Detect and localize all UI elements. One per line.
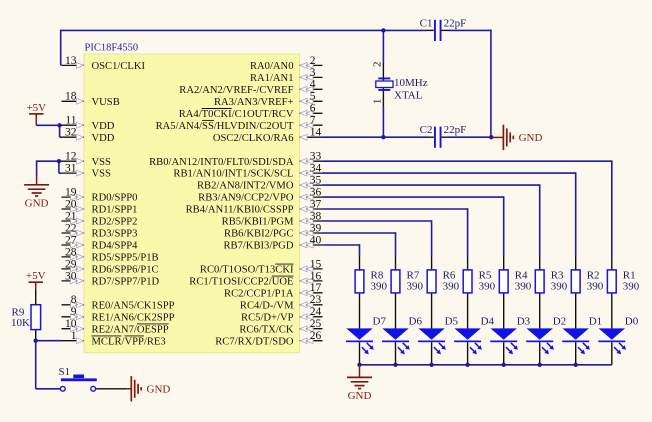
svg-text:D1: D1 (589, 315, 602, 327)
svg-text:GND: GND (147, 384, 171, 396)
svg-text:GND: GND (348, 390, 372, 402)
svg-text:40: 40 (310, 234, 322, 246)
svg-text:6: 6 (310, 103, 316, 115)
svg-text:16: 16 (310, 270, 322, 282)
svg-text:RA0/AN0: RA0/AN0 (250, 61, 294, 72)
svg-text:390: 390 (587, 281, 604, 293)
svg-text:RD1/SPP1: RD1/SPP1 (92, 205, 138, 216)
svg-text:RE2/AN7/OESPP: RE2/AN7/OESPP (92, 324, 169, 335)
svg-text:MCLR/VPP/RE3: MCLR/VPP/RE3 (92, 336, 166, 347)
svg-text:RD2/SPP2: RD2/SPP2 (92, 217, 138, 228)
svg-text:390: 390 (479, 281, 496, 293)
svg-text:D3: D3 (517, 315, 531, 327)
svg-text:9: 9 (71, 306, 77, 318)
svg-text:10: 10 (65, 318, 77, 330)
svg-text:RD6/SPP6/P1C: RD6/SPP6/P1C (92, 265, 159, 276)
svg-text:2: 2 (371, 61, 383, 67)
svg-text:RC7/RX/DT/SDO: RC7/RX/DT/SDO (215, 336, 294, 347)
svg-text:3: 3 (310, 67, 316, 79)
svg-text:RD4/SPP4: RD4/SPP4 (92, 241, 139, 252)
svg-text:VSS: VSS (92, 169, 112, 180)
svg-text:30: 30 (65, 270, 77, 282)
svg-text:10K: 10K (11, 317, 30, 329)
svg-text:RC1/T1OSI/CCP2/UOE: RC1/T1OSI/CCP2/UOE (189, 277, 293, 288)
svg-text:23: 23 (310, 294, 322, 306)
svg-text:+5V: +5V (26, 102, 46, 114)
svg-text:RB5/KBI1/PGM: RB5/KBI1/PGM (222, 217, 294, 228)
svg-text:2: 2 (310, 55, 316, 67)
svg-text:RE1/AN6/CK2SPP: RE1/AN6/CK2SPP (92, 312, 175, 323)
svg-text:RE0/AN5/CK1SPP: RE0/AN5/CK1SPP (92, 300, 175, 311)
svg-text:22pF: 22pF (444, 17, 467, 29)
svg-text:35: 35 (310, 175, 322, 187)
svg-text:1: 1 (371, 99, 383, 105)
svg-text:18: 18 (65, 91, 77, 103)
svg-text:4: 4 (310, 79, 316, 91)
svg-text:C2: C2 (420, 124, 433, 136)
svg-text:28: 28 (65, 246, 77, 258)
svg-text:RC4/D-/VM: RC4/D-/VM (240, 300, 294, 311)
svg-text:39: 39 (310, 222, 322, 234)
svg-text:RB0/AN12/INT0/FLT0/SDI/SDA: RB0/AN12/INT0/FLT0/SDI/SDA (149, 157, 294, 168)
svg-text:GND: GND (519, 132, 543, 144)
svg-text:38: 38 (310, 210, 322, 222)
svg-text:D4: D4 (481, 315, 495, 327)
svg-text:VDD: VDD (92, 133, 115, 144)
svg-text:VUSB: VUSB (92, 97, 120, 108)
svg-text:RC0/T1OSO/T13CKI: RC0/T1OSO/T13CKI (200, 265, 294, 276)
svg-text:12: 12 (65, 151, 77, 163)
svg-text:390: 390 (551, 281, 568, 293)
svg-text:31: 31 (65, 163, 77, 175)
svg-text:D7: D7 (373, 315, 387, 327)
svg-text:15: 15 (310, 258, 322, 270)
svg-text:37: 37 (310, 198, 322, 210)
svg-text:26: 26 (310, 330, 322, 342)
svg-text:RD0/SPP0: RD0/SPP0 (92, 193, 138, 204)
svg-text:RA5/AN4/SS/HLVDIN/C2OUT: RA5/AN4/SS/HLVDIN/C2OUT (156, 121, 294, 132)
svg-text:VDD: VDD (92, 121, 115, 132)
svg-text:8: 8 (71, 294, 77, 306)
svg-text:RD7/SPP7/P1D: RD7/SPP7/P1D (92, 277, 160, 288)
svg-text:RA2/AN2/VREF-/CVREF: RA2/AN2/VREF-/CVREF (179, 85, 293, 96)
svg-text:24: 24 (310, 306, 322, 318)
svg-text:D5: D5 (445, 315, 459, 327)
svg-text:19: 19 (65, 187, 77, 199)
svg-text:RB7/KBI3/PGD: RB7/KBI3/PGD (223, 241, 293, 252)
svg-text:RC2/CCP1/P1A: RC2/CCP1/P1A (224, 288, 294, 299)
svg-text:RD5/SPP5/P1B: RD5/SPP5/P1B (92, 253, 159, 264)
svg-text:390: 390 (407, 281, 424, 293)
svg-text:RB6/KBI2/PGC: RB6/KBI2/PGC (224, 229, 293, 240)
svg-text:RC6/TX/CK: RC6/TX/CK (239, 324, 294, 335)
svg-text:390: 390 (623, 281, 640, 293)
svg-text:390: 390 (371, 281, 388, 293)
svg-text:D2: D2 (553, 315, 566, 327)
svg-text:390: 390 (443, 281, 460, 293)
svg-text:27: 27 (65, 234, 77, 246)
svg-text:22: 22 (65, 222, 77, 234)
svg-text:RB2/AN8/INT2/VMO: RB2/AN8/INT2/VMO (197, 181, 294, 192)
svg-text:13: 13 (65, 55, 77, 67)
svg-text:+5V: +5V (26, 270, 46, 282)
svg-text:5: 5 (310, 91, 316, 103)
svg-text:17: 17 (310, 282, 322, 294)
svg-text:GND: GND (25, 197, 49, 209)
svg-text:34: 34 (310, 163, 322, 175)
svg-text:11: 11 (65, 115, 76, 127)
svg-text:29: 29 (65, 258, 77, 270)
svg-text:C1: C1 (420, 17, 433, 29)
svg-text:D0: D0 (625, 315, 639, 327)
svg-text:RB4/AN11/KBI0/CSSPP: RB4/AN11/KBI0/CSSPP (186, 205, 294, 216)
svg-text:RC5/D+/VP: RC5/D+/VP (241, 312, 294, 323)
svg-text:VSS: VSS (92, 157, 112, 168)
svg-text:RA3/AN3/VREF+: RA3/AN3/VREF+ (214, 97, 294, 108)
svg-text:RA4/T0CKI/C1OUT/RCV: RA4/T0CKI/C1OUT/RCV (179, 109, 294, 120)
svg-text:20: 20 (65, 198, 77, 210)
svg-text:OSC1/CLKI: OSC1/CLKI (92, 61, 146, 72)
svg-text:33: 33 (310, 151, 322, 163)
svg-text:32: 32 (65, 127, 77, 139)
svg-text:21: 21 (65, 210, 77, 222)
svg-text:PIC18F4550: PIC18F4550 (85, 43, 139, 54)
svg-text:25: 25 (310, 318, 322, 330)
svg-text:RB1/AN10/INT1/SCK/SCL: RB1/AN10/INT1/SCK/SCL (173, 169, 293, 180)
svg-text:10MHz: 10MHz (394, 77, 428, 89)
svg-text:RA1/AN1: RA1/AN1 (250, 73, 294, 84)
svg-text:RB3/AN9/CCP2/VPO: RB3/AN9/CCP2/VPO (198, 193, 294, 204)
svg-text:22pF: 22pF (444, 124, 467, 136)
svg-text:RD3/SPP3: RD3/SPP3 (92, 229, 138, 240)
svg-text:S1: S1 (59, 366, 71, 378)
svg-text:390: 390 (515, 281, 532, 293)
svg-text:OSC2/CLKO/RA6: OSC2/CLKO/RA6 (213, 133, 294, 144)
svg-text:XTAL: XTAL (394, 90, 423, 102)
svg-text:D6: D6 (409, 315, 423, 327)
svg-text:1: 1 (71, 330, 77, 342)
svg-text:36: 36 (310, 187, 322, 199)
svg-text:7: 7 (310, 115, 316, 127)
svg-text:14: 14 (310, 127, 322, 139)
